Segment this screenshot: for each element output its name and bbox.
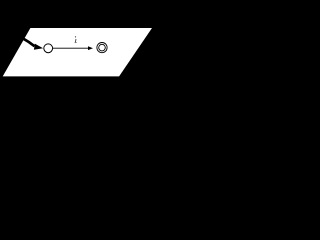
start arrow (23, 38, 44, 50)
transition edge (53, 47, 89, 49)
transition arrowhead (88, 46, 93, 50)
accepting state q1 inner (99, 44, 106, 51)
state q0 (44, 44, 53, 53)
background (0, 0, 153, 78)
label i (75, 36, 77, 43)
parallelogram plane (3, 28, 152, 76)
accepting state q1 outer (97, 43, 107, 53)
